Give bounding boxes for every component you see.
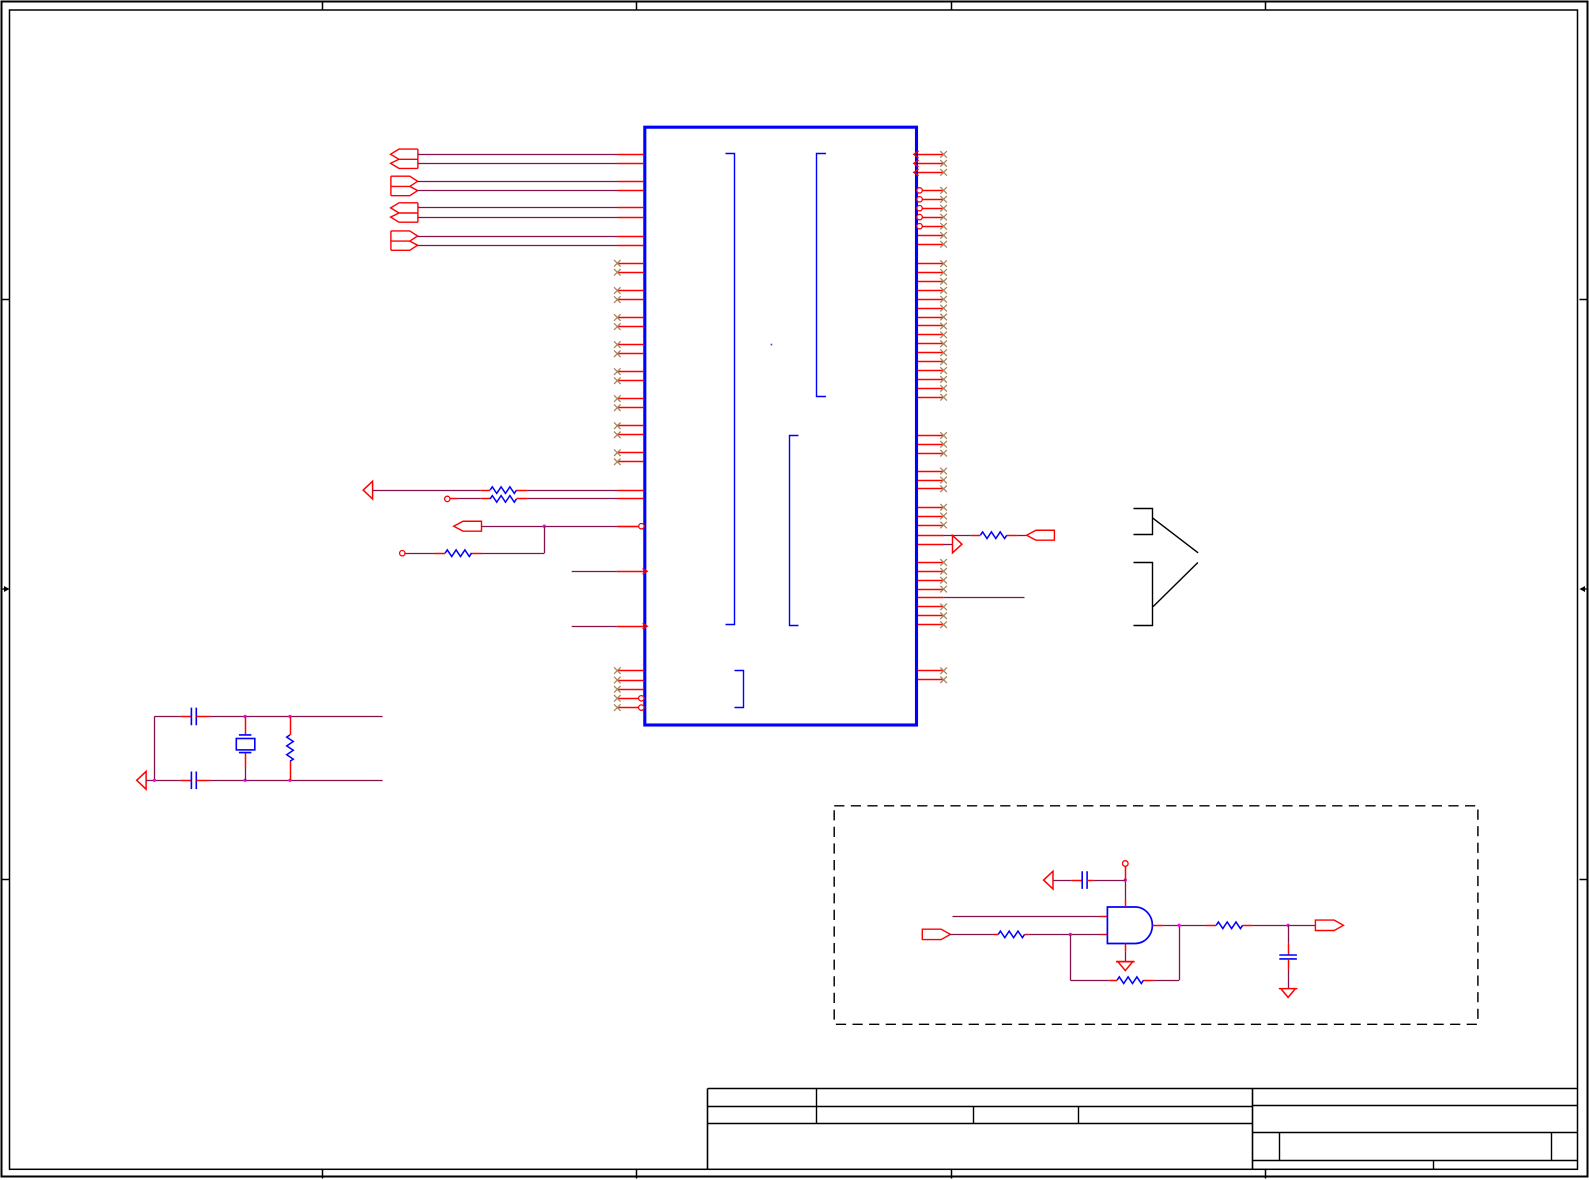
wire G-cap — [1053, 880, 1072, 882]
junction J6 — [288, 779, 291, 782]
wire P2b — [418, 190, 618, 192]
capacitor C1 — [181, 716, 192, 718]
resistor R8 — [1206, 925, 1216, 927]
resistor R6 — [994, 934, 998, 936]
resistor R2 — [481, 498, 490, 500]
junction J2 — [153, 779, 156, 782]
crystal Y1 leads — [245, 716, 247, 735]
junction J4 — [288, 715, 291, 718]
no-connect bubble N4 — [400, 551, 405, 556]
IC U1 inner bracket 2 — [817, 154, 827, 397]
frame right mid arrow — [1581, 588, 1588, 590]
junction J9 — [1177, 924, 1180, 927]
wire N3 — [482, 526, 639, 528]
IC U1 inner bracket 3 — [790, 436, 799, 626]
wire G-in2b — [1029, 934, 1101, 936]
pin row 526 bubble — [639, 524, 644, 529]
capacitor C3 — [1072, 880, 1083, 882]
IC U1 right bubble pins — [917, 187, 947, 229]
pin G-top lead — [1125, 899, 1127, 907]
wire XTAL top — [154, 716, 180, 718]
wire P2a — [418, 181, 618, 183]
capacitor C2 — [181, 780, 192, 782]
IC U1 inner bracket 1 — [726, 154, 735, 625]
port P11 triangle left — [1044, 871, 1053, 889]
IC U1 right arrow pins — [914, 151, 947, 176]
crystal Y1 — [239, 735, 252, 753]
wire P1b — [418, 163, 618, 165]
wire G-fb vert1 — [1070, 934, 1072, 980]
port P12 bullet right — [1315, 920, 1343, 930]
junction J1 — [543, 525, 546, 528]
port P8 triangle right — [953, 536, 962, 553]
wire N2 lead — [450, 498, 457, 500]
port P3 double-in left — [391, 203, 418, 222]
IC U1 left pins rows1-8 — [618, 155, 644, 246]
wire G-bot — [1125, 952, 1127, 962]
wire G-c4 vert2 — [1288, 969, 1290, 988]
resistor R7 — [1109, 980, 1117, 982]
wire P3b — [418, 217, 618, 219]
pin row 535 — [918, 535, 944, 537]
resistor R5 leads — [290, 716, 292, 735]
wire G-top2 lead — [1125, 866, 1127, 880]
port P7 bullet left — [1027, 530, 1055, 540]
ground GND1 — [1116, 961, 1135, 963]
pin row 499 — [618, 498, 644, 500]
IC U1 inner bracket 4 — [735, 671, 744, 708]
wire P4b — [418, 245, 618, 247]
wire G-in2a — [950, 934, 994, 936]
junction J10 — [1286, 924, 1289, 927]
pin row 526 lead — [618, 526, 639, 528]
off-page connector diag 2 — [1153, 563, 1198, 607]
wire N9 — [943, 597, 1024, 599]
IC U1 left no-connect pins — [614, 260, 643, 465]
wire G-fb bottom2 — [1154, 980, 1179, 982]
resistor R5 — [287, 735, 294, 761]
junction J5 — [243, 779, 246, 782]
resistor R4 — [971, 535, 981, 537]
off-page connector top bracket — [1134, 509, 1153, 535]
capacitor C4 — [1288, 943, 1290, 955]
wire G-out2 — [1253, 925, 1316, 927]
port P10 bullet right — [922, 929, 950, 939]
wire G-fb vert2 — [1179, 925, 1181, 980]
wire P1a — [418, 154, 618, 156]
port P9 triangle left — [137, 771, 146, 789]
pin G-in2 lead — [1101, 934, 1108, 936]
wire N1 — [373, 490, 481, 492]
wire P3a — [418, 207, 618, 209]
pin G-in1 lead — [1101, 916, 1108, 918]
resistor R3 — [470, 553, 481, 555]
no-connect bubble G-top — [1123, 861, 1129, 867]
title block — [708, 1088, 1578, 1169]
wire G-top — [1125, 880, 1127, 899]
AND gate U2 — [1107, 907, 1152, 944]
pin row 490 — [618, 490, 644, 492]
IC U1 inner dot — [771, 344, 773, 346]
wire N8 — [944, 544, 953, 546]
wire G-out — [1163, 925, 1206, 927]
pin row 626 arrow — [617, 626, 645, 628]
pin row 571 arrow — [617, 571, 645, 573]
resistor R1 — [481, 490, 490, 492]
wire N6 — [572, 626, 617, 628]
junction J8 — [1124, 878, 1127, 881]
junction J7 — [1069, 933, 1072, 936]
frame left mid arrow — [2, 588, 9, 590]
port P1 double-in left — [391, 149, 418, 168]
pin row 544 — [918, 544, 944, 546]
wire N4b — [405, 553, 435, 555]
IC U1 body — [645, 127, 917, 725]
wire G-c4 vert — [1288, 925, 1290, 943]
wire N7 — [944, 535, 971, 537]
wire N4 — [482, 553, 545, 555]
off-page connector diag 1 — [1152, 518, 1198, 553]
port P5 triangle left — [363, 481, 372, 499]
dashed option box — [834, 806, 1478, 1025]
pin row 598 — [918, 597, 943, 599]
wire XTAL bottom — [146, 780, 181, 782]
IC U1 left bottom no-connect pins — [614, 667, 644, 711]
off-page connector bottom bracket — [1134, 563, 1153, 626]
ground GND2 — [1279, 989, 1298, 998]
pin G-bot lead — [1125, 944, 1127, 952]
port P6 bullet left — [454, 521, 482, 531]
wire N2 — [457, 498, 481, 500]
wire P4a — [418, 236, 618, 238]
wire XTAL left vert — [154, 716, 156, 780]
port P4 double-out right — [391, 231, 418, 250]
wire G-fb bottom — [1070, 980, 1109, 982]
pin G-out lead — [1152, 925, 1163, 927]
wire Y1 bottom — [245, 768, 247, 780]
IC U1 right no-connect pins — [918, 232, 947, 683]
port P2 double-out right — [391, 176, 418, 196]
junction J3 — [243, 715, 246, 718]
wire N5 — [572, 571, 617, 573]
wire N3 vert — [544, 526, 546, 553]
wire N2b — [528, 498, 618, 500]
wire N7b — [1017, 535, 1026, 537]
wire G-in1 — [953, 916, 1101, 918]
no-connect bubble N2 — [445, 496, 450, 501]
wire N1b — [528, 490, 618, 492]
